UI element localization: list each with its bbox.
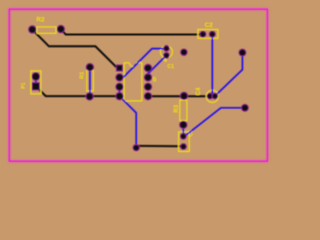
wire R2.1 to U5 pin1 (black) [32, 30, 119, 68]
pad R2.2 [57, 25, 65, 32]
wire under R1 (blue) [89, 67, 91, 96]
pad U5 pin7 [144, 74, 152, 82]
svg-text:R2: R2 [36, 16, 45, 23]
via V1 [133, 145, 139, 151]
wire via V1 to C5.2 (black) [136, 145, 183, 147]
pad U5 pin6 [144, 83, 152, 91]
silkscreen capacitor C1 circle [160, 46, 172, 58]
pad U5 pin8 [144, 64, 152, 72]
wire P1 pad1-pad2 (blue) [35, 78, 37, 87]
pad R2.1 [29, 26, 37, 34]
board outline glow [9, 9, 267, 161]
pad P1.2 square [32, 83, 39, 90]
pad C1.1 [164, 46, 170, 52]
pad C2.1 [200, 31, 206, 37]
pad R3.1 [180, 92, 188, 100]
pad F1 free [181, 49, 188, 56]
silkscreen capacitor C5 [179, 132, 190, 152]
pad C1.2 [164, 53, 170, 59]
silkscreen connector P1 [31, 71, 41, 94]
svg-text:C4: C4 [196, 87, 202, 95]
wire P1 pad2 to R1.2 to U5 pin4 (black) [36, 86, 120, 96]
silkscreen op-amp U5 DIP-8 body with notch [124, 63, 142, 101]
wire U5 pin5 to R3.1 to C4.1 (black) [148, 95, 210, 97]
board background [0, 0, 277, 172]
pad U5 pin5 [144, 92, 152, 100]
wire C1.1 to U5 pin2 (blue) [120, 49, 167, 78]
silkscreen capacitor C2 [198, 29, 218, 38]
pad U5 pin4 [116, 92, 124, 100]
silkscreen resistor R2 [37, 27, 56, 33]
svg-text:C2: C2 [205, 22, 214, 29]
pad R1.1 [86, 63, 94, 71]
pad P2 [241, 104, 248, 111]
pad C4.1 [207, 93, 213, 99]
wire C4.2 up to pad P3 (blue) [215, 53, 243, 97]
silkscreen capacitor C4 circle [206, 90, 218, 102]
svg-text:5: 5 [153, 77, 157, 84]
pad C2.2 [209, 31, 215, 37]
svg-text:R3: R3 [174, 104, 180, 112]
wire C5.1 to pad P2 (blue) [184, 108, 245, 137]
pad P3 free [239, 49, 246, 56]
pad P1.1 round [32, 73, 40, 81]
pad U5 pin1 square [116, 65, 122, 71]
silkscreen C1 plus mark [164, 59, 167, 62]
pad R1.2 [86, 93, 94, 101]
svg-text:P1: P1 [21, 82, 27, 88]
svg-text:R1: R1 [79, 72, 85, 79]
wire U5 pin3-pin4 to via V1 (blue) [120, 87, 137, 148]
wire R2.2 to C2.1 (black) [61, 29, 203, 34]
pad R3.2 [180, 121, 188, 129]
silkscreen resistor R1 [87, 71, 94, 92]
wire R3.2 to C5.1 (blue) [182, 125, 184, 137]
silkscreen resistor R3 [180, 100, 187, 120]
wire C1.2 to U5 pin7 (blue) [148, 55, 166, 77]
pad C5.2 [180, 144, 186, 150]
pad U5 pin3 [116, 83, 124, 91]
pad C5.1 [180, 133, 186, 139]
board outline [9, 9, 267, 161]
pad C4.2 [212, 93, 218, 99]
svg-text:C1: C1 [167, 64, 174, 70]
wire C2.2 down to C4.2 (blue) [212, 34, 215, 96]
pad U5 pin2 [116, 74, 124, 82]
